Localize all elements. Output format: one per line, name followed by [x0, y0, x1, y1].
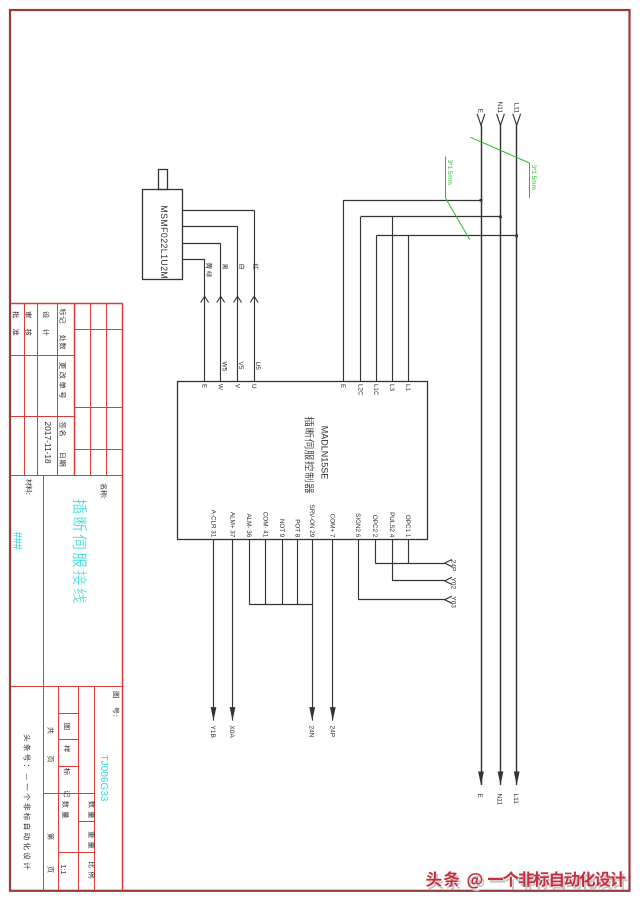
drive U1 name label (servo controller)	[305, 417, 315, 493]
svg-text:3*1.5mm: 3*1.5mm	[446, 160, 453, 185]
svg-text:SRV-ON 29: SRV-ON 29	[308, 505, 315, 538]
svg-text:E: E	[477, 109, 484, 114]
svg-text:MADLN15SE: MADLN15SE	[320, 426, 330, 480]
svg-text:OPC2 2: OPC2 2	[371, 515, 378, 538]
wire OPC1 tie to OPC2	[408, 540, 410, 564]
servo drive U1 MADLN15SE	[178, 382, 428, 540]
svg-text:V: V	[233, 384, 240, 389]
svg-text:L3: L3	[388, 384, 395, 392]
title block	[11, 303, 123, 891]
wire W drive-to-motor	[183, 243, 225, 381]
svg-text:N11: N11	[496, 794, 503, 806]
svg-text:X0A: X0A	[228, 726, 235, 739]
wire A-CLR to Y1B	[211, 540, 217, 721]
wire U drive-to-motor	[183, 210, 258, 381]
wire NOT to common bus	[282, 540, 284, 605]
wire COM- to common bus	[265, 540, 267, 605]
wire E pin to PE bus	[343, 200, 481, 381]
wire PULS2 to Y02	[392, 540, 452, 585]
svg-text:N11: N11	[496, 102, 503, 114]
junction node N11	[499, 216, 502, 219]
junction node PE	[480, 199, 483, 202]
svg-text:OPC1 1: OPC1 1	[404, 515, 411, 538]
material field label	[26, 479, 33, 494]
svg-text:MSMF022L1U2M: MSMF022L1U2M	[159, 205, 169, 279]
svg-text:W5: W5	[220, 362, 227, 372]
svg-text:24P: 24P	[328, 726, 335, 738]
wire L2C to N11 drop	[360, 217, 362, 382]
svg-text:A-CLR 31: A-CLR 31	[209, 510, 216, 538]
svg-text:SIGN2 6: SIGN2 6	[354, 513, 361, 538]
svg-text:TJ006G33: TJ006G33	[98, 755, 109, 802]
svg-text:E: E	[339, 384, 346, 388]
svg-text:L11: L11	[512, 103, 519, 114]
common bus 24N tie	[249, 604, 312, 606]
toutiao id line	[24, 734, 31, 869]
svg-text:3*1.5mm: 3*1.5mm	[530, 165, 537, 190]
svg-text:COM+ 7: COM+ 7	[329, 514, 336, 538]
svg-text:24P: 24P	[450, 560, 457, 572]
drawing number label	[113, 692, 119, 717]
svg-text:PULS2 4: PULS2 4	[388, 512, 395, 538]
power bus E (PE)	[477, 114, 485, 785]
svg-text:ALM- 36: ALM- 36	[245, 513, 252, 537]
svg-text:L1: L1	[404, 384, 411, 392]
wire POT to common bus	[297, 540, 299, 605]
drawing name (cyan)	[73, 499, 87, 603]
svg-text:U: U	[250, 384, 257, 389]
material value (cyan)	[14, 532, 23, 550]
wire L11 drop	[376, 235, 517, 237]
wire color label white (V)	[239, 264, 245, 268]
svg-text:POT 8: POT 8	[293, 519, 300, 538]
junction node L11	[515, 235, 518, 238]
wire color label black (W)	[222, 264, 227, 270]
svg-text:L1C: L1C	[372, 384, 379, 396]
svg-text:V5: V5	[237, 362, 244, 370]
svg-text:Y1B: Y1B	[209, 726, 216, 738]
wire OPC2 to 24P	[375, 540, 452, 567]
svg-text:1:1: 1:1	[59, 865, 68, 875]
svg-text:2017-11-18: 2017-11-18	[43, 421, 53, 464]
svg-text:Y02: Y02	[450, 578, 457, 590]
wire N11 drop	[361, 216, 501, 218]
name field label	[100, 483, 107, 498]
watermark 头条@一个非标自动化设计	[426, 871, 627, 891]
wire V drive-to-motor	[183, 226, 242, 381]
svg-text:W: W	[217, 384, 224, 390]
title block header labels	[13, 309, 67, 467]
cable marker 3x1.5mm (power bus)	[471, 137, 537, 198]
motor M1 MSMF022L1U2M	[143, 170, 183, 280]
svg-text:NOT 9: NOT 9	[278, 519, 285, 538]
svg-text:E: E	[476, 794, 483, 799]
power bus L11	[513, 114, 521, 785]
svg-text:ALM+ 37: ALM+ 37	[228, 512, 235, 538]
svg-text:E: E	[200, 384, 207, 388]
svg-text:L11: L11	[512, 794, 519, 805]
power bus N11	[497, 114, 505, 785]
wire SIGN2 to Y03	[358, 540, 452, 604]
svg-text:COM- 41: COM- 41	[262, 512, 269, 538]
wire color label red (U)	[253, 264, 258, 270]
wire SRV-ON to 24N	[309, 540, 315, 721]
svg-text:24N: 24N	[308, 726, 315, 738]
svg-text:Y03: Y03	[450, 596, 457, 608]
wire COM+ to 24P	[330, 540, 336, 721]
wire color label yellow/green (E)	[206, 263, 212, 277]
wire L3 to N11 drop	[392, 217, 394, 382]
wire ALM- to common bus	[249, 540, 251, 605]
sheet grid labels	[47, 723, 95, 878]
wire L1C to L11 drop	[376, 236, 378, 382]
svg-text:L2C: L2C	[356, 384, 363, 396]
cable marker 3x1.5mm (drive feed)	[446, 157, 470, 240]
svg-text:U5: U5	[254, 362, 261, 371]
wire L1 to L11 drop	[408, 236, 410, 382]
wire E drive-to-motor (ground lead)	[183, 259, 209, 381]
wire ALM+ to X0A	[230, 540, 236, 721]
